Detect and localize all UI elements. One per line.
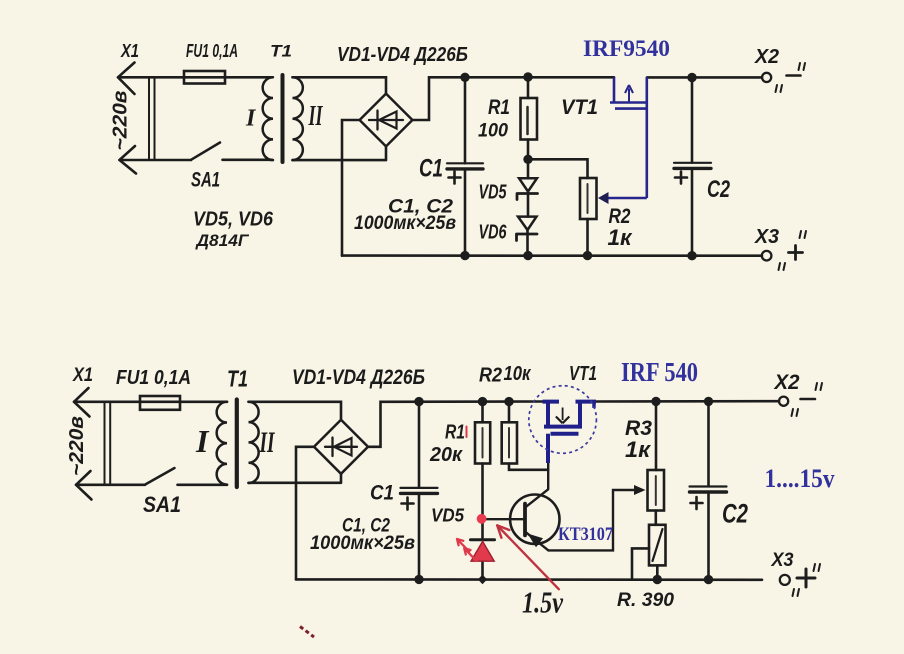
svg-text:20к: 20к <box>429 444 463 466</box>
svg-text:I: I <box>195 423 210 459</box>
svg-text:X2: X2 <box>774 371 800 394</box>
svg-text:X2: X2 <box>754 46 779 68</box>
svg-text:C2: C2 <box>707 176 730 203</box>
svg-text:Д814Г: Д814Г <box>194 231 250 250</box>
svg-text:VD1-VD4 Д226Б: VD1-VD4 Д226Б <box>337 43 468 66</box>
svg-text:C2: C2 <box>722 499 748 529</box>
svg-text:X3: X3 <box>771 549 794 571</box>
svg-text:VD6: VD6 <box>479 221 507 244</box>
svg-text:VD5: VD5 <box>479 181 507 204</box>
svg-text:R2: R2 <box>479 365 502 387</box>
svg-text:VT1: VT1 <box>569 363 597 385</box>
svg-text:T1: T1 <box>270 42 292 61</box>
svg-text:X1: X1 <box>120 41 139 61</box>
svg-text:1000мк×25в: 1000мк×25в <box>310 532 415 554</box>
svg-text:IRF 540: IRF 540 <box>621 357 698 387</box>
svg-text:SA1: SA1 <box>143 492 181 517</box>
svg-text:SA1: SA1 <box>191 169 220 192</box>
svg-text:C1: C1 <box>419 155 443 183</box>
svg-text:T1: T1 <box>227 366 248 392</box>
svg-text:1....15v: 1....15v <box>765 464 835 493</box>
svg-text:II: II <box>259 426 275 459</box>
svg-text:X3: X3 <box>754 226 779 248</box>
svg-text:1000мк×25в: 1000мк×25в <box>354 212 456 234</box>
svg-text:VT1: VT1 <box>561 95 598 119</box>
svg-text:R. 390: R. 390 <box>617 589 674 611</box>
svg-text:1к: 1к <box>625 437 652 462</box>
svg-text:R1: R1 <box>445 422 465 444</box>
svg-text:10к: 10к <box>504 363 532 385</box>
svg-text:1к: 1к <box>608 225 634 250</box>
svg-text:КТ3107: КТ3107 <box>558 524 613 545</box>
svg-text:VD5, VD6: VD5, VD6 <box>193 208 274 231</box>
svg-text:II: II <box>308 101 323 132</box>
svg-text:C1: C1 <box>370 482 394 505</box>
svg-text:R1: R1 <box>488 96 510 119</box>
svg-text:IRF9540: IRF9540 <box>583 36 670 61</box>
svg-text:~220в: ~220в <box>110 91 132 151</box>
svg-text:~220в: ~220в <box>66 416 88 476</box>
svg-text:1.5v: 1.5v <box>522 585 564 620</box>
svg-text:VD5: VD5 <box>431 506 465 526</box>
svg-text:100: 100 <box>478 120 508 142</box>
svg-text:VD1-VD4 Д226Б: VD1-VD4 Д226Б <box>292 365 425 389</box>
svg-text:I: I <box>245 106 257 132</box>
svg-text:FU1 0,1A: FU1 0,1A <box>186 41 238 61</box>
svg-text:X1: X1 <box>72 365 93 386</box>
svg-text:FU1 0,1A: FU1 0,1A <box>116 367 191 389</box>
